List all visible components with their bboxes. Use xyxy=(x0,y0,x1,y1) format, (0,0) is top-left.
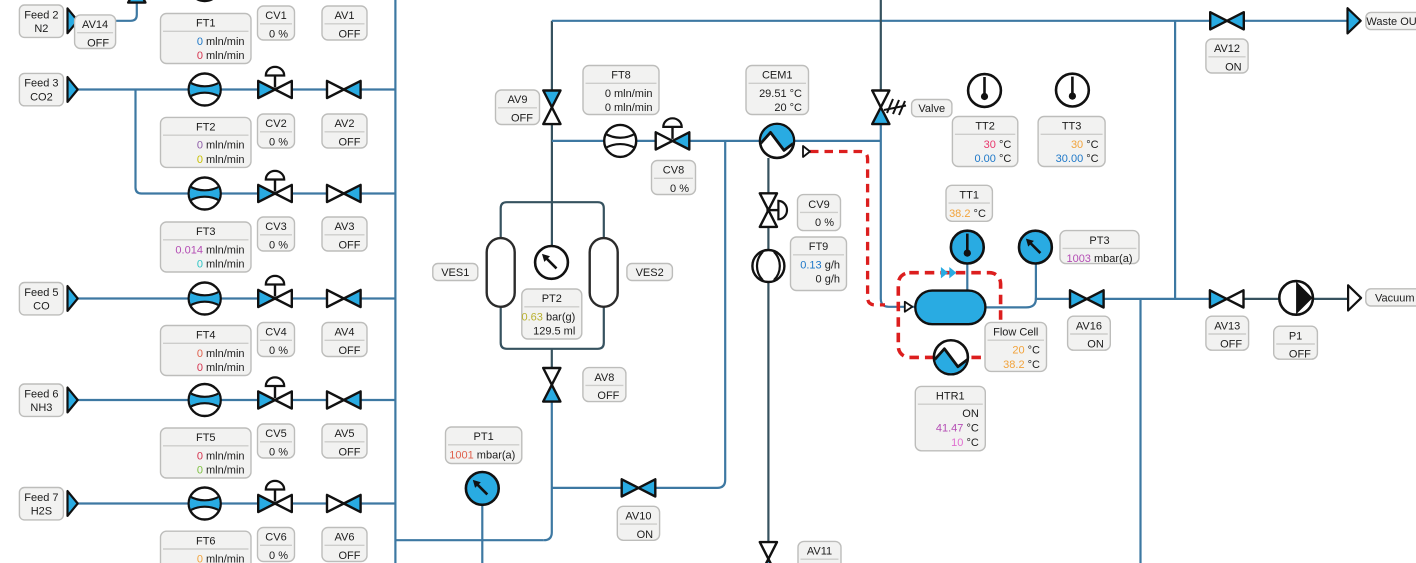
wire feed manifold vertical xyxy=(394,0,396,563)
wire needle valve to reactor inlet xyxy=(881,122,916,307)
label AV4 xyxy=(322,323,367,358)
wire CEM1 sample dashed line xyxy=(810,152,885,305)
label PT1 xyxy=(446,427,522,464)
svg-text:AV4: AV4 xyxy=(335,327,355,339)
label TT1 xyxy=(946,185,992,221)
label VES2 xyxy=(627,264,673,281)
svg-text:FT2: FT2 xyxy=(196,122,216,134)
svg-text:0 mln/min: 0 mln/min xyxy=(197,36,245,48)
svg-text:AV16: AV16 xyxy=(1076,320,1102,332)
svg-text:AV3: AV3 xyxy=(335,221,355,233)
wire AV8 to AV10 junction and bottom corner xyxy=(544,398,552,540)
svg-text:NH3: NH3 xyxy=(30,402,52,414)
svg-text:Waste OUT: Waste OUT xyxy=(1366,16,1416,28)
valve AV13 xyxy=(1210,290,1244,307)
svg-text:CV3: CV3 xyxy=(265,221,286,233)
wire top waste header xyxy=(552,20,1348,22)
label CEM1 xyxy=(746,66,809,115)
node Feed 3 inlet flag xyxy=(68,77,78,102)
svg-text:FT3: FT3 xyxy=(196,226,216,238)
label Flow Cell xyxy=(985,322,1047,371)
svg-text:ON: ON xyxy=(1087,339,1104,351)
wire vessel top manifold xyxy=(501,202,604,238)
node Feed 5 inlet flag xyxy=(68,286,78,311)
svg-text:0.014 mln/min: 0.014 mln/min xyxy=(175,244,244,256)
needle valve xyxy=(872,91,906,125)
svg-text:0 mln/min: 0 mln/min xyxy=(197,362,245,374)
flow meter FT8 xyxy=(604,125,636,157)
control valve CV3 xyxy=(258,171,292,202)
label CV1 xyxy=(258,6,295,41)
svg-text:CV8: CV8 xyxy=(663,165,684,177)
svg-text:0 %: 0 % xyxy=(670,183,689,195)
svg-text:0 %: 0 % xyxy=(269,345,288,357)
label AV8 xyxy=(583,368,626,403)
svg-text:AV2: AV2 xyxy=(335,118,355,130)
valve AV12 xyxy=(1210,12,1244,29)
wire AV13 to pump P1 to vacuum xyxy=(1244,298,1348,300)
svg-text:AV8: AV8 xyxy=(594,372,614,384)
svg-text:VES2: VES2 xyxy=(636,267,664,279)
svg-text:20 °C: 20 °C xyxy=(1012,345,1040,357)
svg-text:Feed 2: Feed 2 xyxy=(24,9,58,21)
valve AV3 xyxy=(327,185,361,202)
svg-text:PT2: PT2 xyxy=(542,293,562,305)
svg-text:AV6: AV6 xyxy=(335,532,355,544)
svg-text:AV9: AV9 xyxy=(508,94,528,106)
label CV5 xyxy=(258,424,295,459)
node Feed 7 inlet flag xyxy=(68,491,78,516)
svg-text:0 %: 0 % xyxy=(269,137,288,149)
label VES1 xyxy=(433,264,478,281)
node reactor inlet flag xyxy=(905,302,913,312)
svg-text:CV9: CV9 xyxy=(808,199,829,211)
label HTR1 xyxy=(915,386,985,450)
svg-text:VES1: VES1 xyxy=(441,267,469,279)
svg-text:CEM1: CEM1 xyxy=(762,70,793,82)
svg-text:P1: P1 xyxy=(1289,330,1302,342)
svg-text:0 %: 0 % xyxy=(269,447,288,459)
svg-text:0.63 bar(g): 0.63 bar(g) xyxy=(521,311,575,323)
mass flow controller FT1 (clipped at top) xyxy=(189,0,221,1)
wire vessel bottom manifold xyxy=(501,307,604,349)
svg-text:30.00 °C: 30.00 °C xyxy=(1056,153,1099,165)
pressure gauge PT3 xyxy=(1019,231,1052,264)
control valve CV9 xyxy=(760,193,787,227)
svg-text:30 °C: 30 °C xyxy=(984,139,1012,151)
label CV8 xyxy=(652,161,696,196)
valve AV6 xyxy=(327,495,361,512)
mass flow controller FT6 xyxy=(189,488,221,520)
node sample point flag xyxy=(803,146,810,157)
svg-text:0 mln/min: 0 mln/min xyxy=(197,259,245,271)
svg-text:FT6: FT6 xyxy=(196,535,216,547)
svg-text:TT2: TT2 xyxy=(975,121,995,133)
label FT5 xyxy=(161,428,252,478)
wire drain line down xyxy=(1139,299,1141,563)
wire PT3 stem xyxy=(1035,263,1037,301)
wire needle valve feed from top xyxy=(880,0,882,92)
svg-text:OFF: OFF xyxy=(339,137,361,149)
svg-text:0 mln/min: 0 mln/min xyxy=(197,140,245,152)
wire vessel outlet to valve AV8 xyxy=(551,349,553,372)
thermometer TT2 xyxy=(968,74,1001,107)
svg-text:CV6: CV6 xyxy=(265,532,286,544)
wire AV9 riser xyxy=(551,21,553,246)
svg-text:Feed 6: Feed 6 xyxy=(24,388,58,400)
svg-text:PT3: PT3 xyxy=(1089,235,1109,247)
svg-text:OFF: OFF xyxy=(597,390,619,402)
svg-text:38.2 °C: 38.2 °C xyxy=(1003,359,1040,371)
thermometer TT3 xyxy=(1056,74,1089,107)
svg-text:TT1: TT1 xyxy=(959,190,979,202)
svg-text:Feed 7: Feed 7 xyxy=(24,492,58,504)
svg-text:0 mln/min: 0 mln/min xyxy=(197,50,245,62)
wire feed7 H2S line xyxy=(77,502,395,504)
wire manifold bottom horizontal xyxy=(395,539,543,541)
wire TT1 stem xyxy=(966,262,968,291)
svg-text:AV14: AV14 xyxy=(82,19,108,31)
node Feed 6 inlet flag xyxy=(68,388,78,413)
label Waste OUT xyxy=(1366,12,1416,29)
evaporator CEM1 xyxy=(760,116,794,158)
label PT2 xyxy=(521,289,581,339)
pressure gauge PT2 xyxy=(535,246,568,279)
svg-text:38.2 °C: 38.2 °C xyxy=(949,208,986,220)
svg-text:129.5 ml: 129.5 ml xyxy=(533,326,575,338)
svg-text:0 %: 0 % xyxy=(269,29,288,41)
label AV9 xyxy=(496,90,540,125)
label FT6 xyxy=(161,531,252,563)
label CV9 xyxy=(798,195,841,231)
valve AV4 xyxy=(327,290,361,307)
svg-text:FT9: FT9 xyxy=(809,241,829,253)
wire feed6 NH3 line xyxy=(77,399,395,401)
svg-text:0 mln/min: 0 mln/min xyxy=(197,450,245,462)
svg-text:OFF: OFF xyxy=(1220,339,1242,351)
label FT3 xyxy=(161,222,252,272)
wire CO2 branch to row3 xyxy=(136,90,396,194)
svg-text:CV1: CV1 xyxy=(265,10,286,22)
svg-text:ON: ON xyxy=(1225,62,1242,74)
svg-text:0 %: 0 % xyxy=(269,550,288,562)
pump P1 xyxy=(1279,281,1313,315)
label AV5 xyxy=(322,424,367,459)
svg-text:0 mln/min: 0 mln/min xyxy=(605,102,653,114)
wire riser to waste header xyxy=(1174,21,1176,299)
svg-text:CV2: CV2 xyxy=(265,118,286,130)
mass flow controller FT3 xyxy=(189,178,221,210)
reactor heated zone dashed box xyxy=(898,273,1000,358)
svg-text:0 %: 0 % xyxy=(269,240,288,252)
vessel VES1 xyxy=(487,238,515,307)
node Waste OUT flag xyxy=(1348,8,1361,33)
svg-text:41.47 °C: 41.47 °C xyxy=(936,423,979,435)
control valve CV5 xyxy=(258,377,292,408)
svg-text:OFF: OFF xyxy=(1289,349,1311,361)
control valve CV4 xyxy=(258,276,292,307)
mass flow controller FT4 xyxy=(189,283,221,315)
label FT1 xyxy=(161,14,252,64)
label CV4 xyxy=(258,323,295,358)
svg-text:0 mln/min: 0 mln/min xyxy=(605,88,653,100)
control valve CV8 xyxy=(656,118,690,149)
control valve CV2 xyxy=(258,67,292,98)
pressure gauge PT1 xyxy=(466,472,499,505)
valve AV16 xyxy=(1070,290,1104,307)
label AV13 xyxy=(1206,316,1249,351)
svg-text:FT4: FT4 xyxy=(196,330,216,342)
svg-text:CV5: CV5 xyxy=(265,428,286,440)
svg-text:AV1: AV1 xyxy=(335,10,355,22)
valve AV14 xyxy=(128,0,145,3)
label CV6 xyxy=(258,528,295,563)
label FT9 xyxy=(791,237,847,291)
svg-text:0 mln/min: 0 mln/min xyxy=(197,554,245,563)
label TT2 xyxy=(952,117,1017,167)
label Valve xyxy=(912,100,952,117)
svg-text:FT8: FT8 xyxy=(611,70,631,82)
valve AV2 xyxy=(327,81,361,98)
svg-text:OFF: OFF xyxy=(87,37,109,49)
heater HTR1 xyxy=(934,340,968,382)
svg-text:ON: ON xyxy=(962,408,979,420)
feed source Feed 6 NH3 xyxy=(19,384,63,416)
label AV10 xyxy=(617,506,659,541)
wire reactor outlet xyxy=(984,299,1244,308)
svg-text:1003 mbar(a): 1003 mbar(a) xyxy=(1066,253,1132,265)
label AV12 xyxy=(1206,39,1248,74)
svg-text:CV4: CV4 xyxy=(265,327,286,339)
svg-text:OFF: OFF xyxy=(339,345,361,357)
reactor flow cell xyxy=(915,291,985,325)
label AV16 xyxy=(1068,316,1111,351)
svg-text:0.00 °C: 0.00 °C xyxy=(974,153,1011,165)
wire feed5 CO line xyxy=(77,297,395,299)
label FT8 xyxy=(583,66,659,115)
label Vacuum xyxy=(1366,289,1416,306)
svg-text:CO: CO xyxy=(33,301,50,313)
node Vacuum flag xyxy=(1348,285,1361,310)
svg-text:0 %: 0 % xyxy=(815,217,834,229)
svg-text:PT1: PT1 xyxy=(474,431,494,443)
svg-text:0.13 g/h: 0.13 g/h xyxy=(800,259,840,271)
svg-text:0 g/h: 0 g/h xyxy=(816,274,840,286)
svg-text:Vacuum: Vacuum xyxy=(1375,292,1415,304)
wire feed3 CO2 line xyxy=(77,88,395,90)
svg-text:1001 mbar(a): 1001 mbar(a) xyxy=(449,450,515,462)
svg-text:AV10: AV10 xyxy=(625,511,651,523)
wire CV8 CEM1 horizontal xyxy=(552,140,881,142)
svg-text:OFF: OFF xyxy=(339,240,361,252)
wire feed2 to valve AV14 xyxy=(116,1,137,21)
svg-text:TT3: TT3 xyxy=(1062,121,1082,133)
feed source Feed 3 CO2 xyxy=(19,73,63,105)
svg-text:FT5: FT5 xyxy=(196,432,216,444)
wire AV10 branch xyxy=(552,141,725,488)
wire PT1 stem xyxy=(481,505,483,563)
vessel VES2 xyxy=(590,238,618,307)
svg-text:10 °C: 10 °C xyxy=(951,437,979,449)
svg-text:0 mln/min: 0 mln/min xyxy=(197,465,245,477)
svg-text:Feed 5: Feed 5 xyxy=(24,287,58,299)
svg-text:OFF: OFF xyxy=(339,447,361,459)
mass flow controller FT5 xyxy=(189,384,221,416)
svg-text:AV12: AV12 xyxy=(1214,43,1240,55)
svg-text:20 °C: 20 °C xyxy=(774,102,802,114)
control valve CV6 xyxy=(258,481,292,512)
svg-text:Valve: Valve xyxy=(918,103,945,115)
feed source Feed 2 N2 xyxy=(19,5,63,37)
svg-text:H2S: H2S xyxy=(31,506,52,518)
valve AV5 xyxy=(327,391,361,408)
wire CEM1 to FT9 drop xyxy=(767,158,769,546)
svg-text:AV13: AV13 xyxy=(1214,320,1240,332)
thermometer TT1 xyxy=(951,231,984,264)
svg-text:AV5: AV5 xyxy=(335,428,355,440)
valve AV10 xyxy=(622,479,656,496)
svg-text:CO2: CO2 xyxy=(30,92,53,104)
valve AV8 xyxy=(543,368,560,402)
label AV1 xyxy=(322,6,367,41)
svg-text:0 mln/min: 0 mln/min xyxy=(197,154,245,166)
label TT3 xyxy=(1038,117,1105,167)
svg-text:OFF: OFF xyxy=(339,550,361,562)
svg-text:OFF: OFF xyxy=(511,113,533,125)
label CV2 xyxy=(258,114,295,149)
svg-text:OFF: OFF xyxy=(339,29,361,41)
svg-text:Flow Cell: Flow Cell xyxy=(993,327,1038,339)
valve AV11 xyxy=(760,542,777,563)
svg-text:FT1: FT1 xyxy=(196,18,216,30)
svg-text:0 mln/min: 0 mln/min xyxy=(197,348,245,360)
node Feed 2 inlet flag xyxy=(68,8,78,33)
valve AV9 xyxy=(543,91,560,125)
svg-text:ON: ON xyxy=(637,529,654,541)
svg-text:30 °C: 30 °C xyxy=(1071,139,1099,151)
node reactor inlet play markers xyxy=(941,267,957,278)
label FT4 xyxy=(161,326,252,376)
feed source Feed 5 CO xyxy=(19,283,63,315)
label PT3 xyxy=(1060,231,1139,266)
label AV3 xyxy=(322,217,367,252)
label AV14 xyxy=(75,15,116,50)
label FT2 xyxy=(161,117,252,167)
svg-text:Feed 3: Feed 3 xyxy=(24,78,58,90)
feed source Feed 7 H2S xyxy=(19,488,63,520)
svg-text:HTR1: HTR1 xyxy=(936,391,965,403)
label P1 xyxy=(1274,326,1318,361)
label AV11 xyxy=(798,541,841,563)
flow meter FT9 xyxy=(752,250,784,282)
mass flow controller FT2 xyxy=(189,74,221,106)
label AV6 xyxy=(322,528,367,563)
svg-text:N2: N2 xyxy=(34,23,48,35)
svg-text:29.51 °C: 29.51 °C xyxy=(759,88,802,100)
label CV3 xyxy=(258,217,295,252)
svg-text:AV11: AV11 xyxy=(807,546,832,558)
label AV2 xyxy=(322,114,367,149)
